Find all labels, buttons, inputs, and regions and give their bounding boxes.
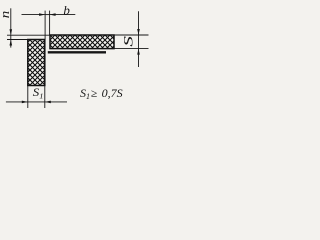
background [0, 0, 153, 117]
svg-text:b: b [63, 2, 70, 17]
extension line S1 left (left edge of vertical plate) [27, 86, 29, 108]
vertical plate (thickness S1), hatched section [28, 40, 45, 86]
dimension S lower line with up arrow [137, 49, 140, 67]
dimension b connecting segment [45, 14, 50, 16]
dimension n lower line with up arrow [10, 40, 13, 48]
extension line S1 right (right edge of vertical plate) [44, 86, 46, 108]
svg-text:n: n [0, 11, 13, 18]
dimension b right line with left arrow [50, 13, 76, 16]
extension line: top of horizontal plate extended left [7, 34, 50, 36]
dimension b left line with right arrow [22, 13, 46, 16]
extension line: bottom of plate extended right [113, 48, 149, 50]
extension line: top of vertical plate extended left [7, 39, 28, 41]
extension line b left (right face of vertical plate) [44, 11, 46, 40]
extension line b right (left face of horizontal plate) [49, 11, 51, 35]
dimension S1 connecting segment [28, 101, 45, 103]
dimension S1 right line with left arrow [45, 101, 67, 104]
dimension S1 left line with right arrow [6, 101, 28, 104]
extension line: top of plate extended right [113, 34, 149, 36]
dimension n upper line with down arrow [10, 8, 13, 35]
horizontal plate (thickness S), hatched section [50, 35, 114, 49]
svg-text:S: S [121, 36, 135, 47]
dimension S upper line with down arrow [137, 11, 140, 35]
dimension n connecting segment [10, 35, 12, 39]
dimension S connecting segment [138, 35, 140, 49]
solder seam thick line under horizontal plate [48, 51, 106, 53]
